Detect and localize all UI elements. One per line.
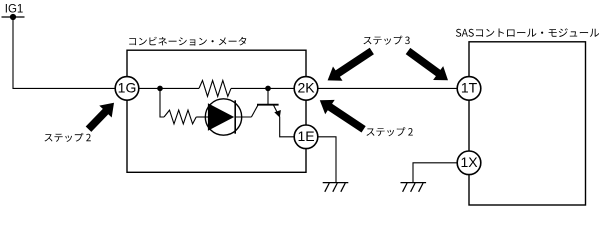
svg-text:1G: 1G (118, 80, 137, 96)
pin 2K (294, 77, 318, 101)
ground G1 (323, 183, 349, 192)
svg-text:1E: 1E (297, 128, 314, 144)
resistor R2 (164, 110, 196, 124)
step 2 label left (ステップ2) (45, 133, 91, 142)
wire transistor Q1 emitter to pin 1E (280, 117, 295, 137)
wire resistor R1 to pin 2K (231, 87, 294, 89)
svg-text:1T: 1T (461, 80, 478, 96)
junction node B (265, 86, 271, 92)
step 2 label right (ステップ2) (367, 127, 413, 136)
step 2 callout arrow to pin 1G (86, 103, 114, 132)
step 3 label (ステップ3) (364, 36, 410, 45)
pin 1G (115, 77, 139, 101)
resistor R1 (199, 80, 231, 96)
step 3 callout arrow to pin 1T (406, 48, 448, 80)
combination meter label (コンビネーション・メータ) (129, 37, 246, 46)
svg-text:2K: 2K (297, 80, 315, 96)
combination meter box (127, 50, 306, 172)
wire pin 1X to ground G2 (413, 163, 457, 183)
wire IG1 to pin 1G (13, 17, 115, 88)
wire pin 2K to pin 1T (318, 87, 457, 89)
SAS control module label (SASコントロール・モジュール) (456, 28, 599, 37)
svg-text:IG1: IG1 (5, 3, 24, 15)
svg-text:1X: 1X (460, 154, 478, 170)
transistor Q1 (251, 88, 281, 117)
wire pin 1E to ground G1 (318, 137, 336, 183)
junction node A (157, 86, 163, 92)
wire resistor R2 to LED D1 (196, 116, 209, 118)
wire LED D1 to transistor Q1 base (235, 116, 251, 118)
power source IG1 terminal bar (2, 16, 25, 18)
pin 1E (294, 125, 318, 149)
pin 1X (457, 151, 481, 175)
power source IG1 node (10, 14, 16, 20)
pin 1T (457, 77, 481, 101)
step 3 callout arrow to pin 2K (328, 48, 374, 81)
wire pin 1G to resistor R1 (139, 87, 199, 89)
wire node A down to resistor R2 (160, 88, 164, 117)
LED D1 (205, 99, 241, 135)
step 2 callout arrow to pin 2K (320, 100, 366, 133)
SAS control module box (469, 42, 586, 205)
ground G2 (401, 183, 427, 192)
